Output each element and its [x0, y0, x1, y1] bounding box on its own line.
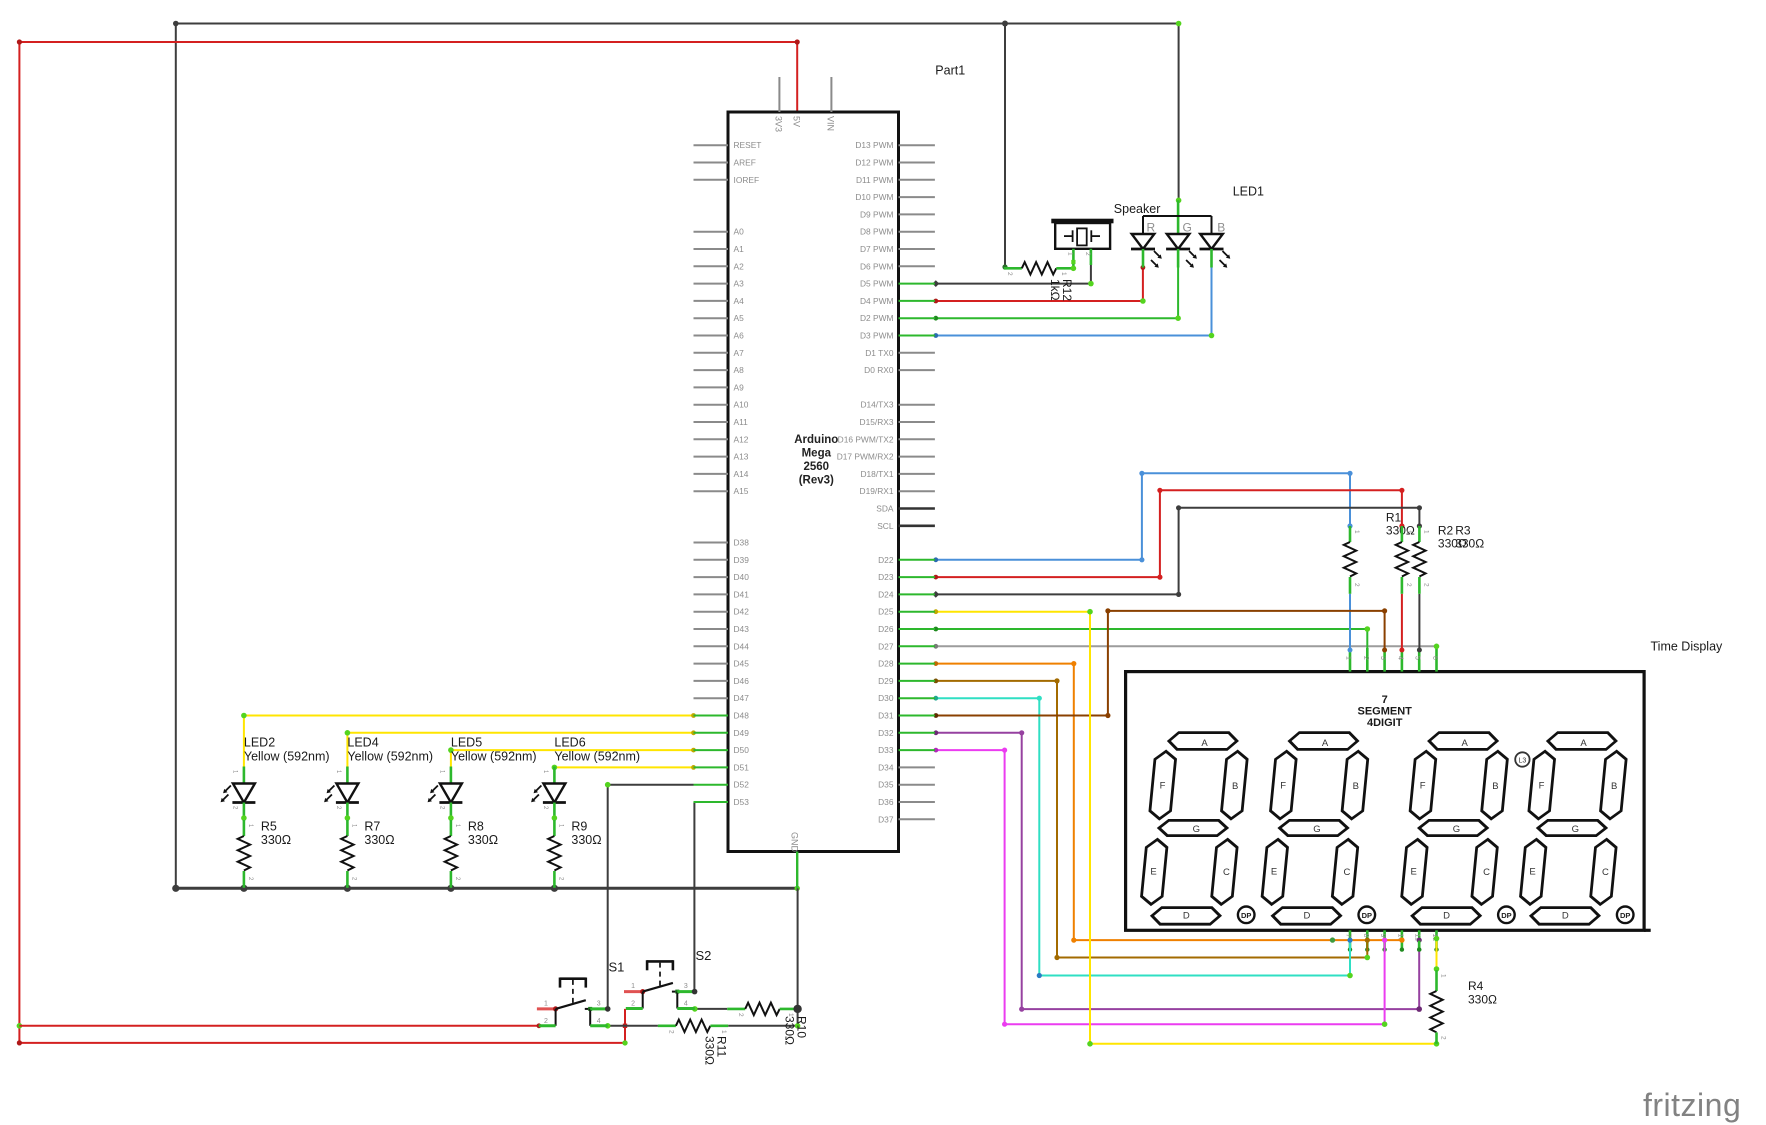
- svg-text:Mega: Mega: [802, 448, 832, 460]
- svg-text:6: 6: [1431, 656, 1438, 660]
- svg-text:D35: D35: [878, 780, 894, 790]
- svg-text:A13: A13: [734, 452, 749, 462]
- wire D51 to LED anode (yellow): [552, 765, 696, 771]
- svg-text:SCL: SCL: [877, 521, 894, 531]
- svg-text:D22: D22: [878, 555, 894, 565]
- svg-text:G: G: [1183, 221, 1192, 235]
- svg-text:D48: D48: [734, 711, 750, 721]
- svg-text:2: 2: [668, 1030, 675, 1034]
- LED LED1-R (red channel): [1131, 221, 1162, 268]
- svg-text:4DIGIT: 4DIGIT: [1367, 717, 1403, 729]
- svg-text:Yellow (592nm): Yellow (592nm): [451, 750, 537, 764]
- wire D50 to LED anode (yellow): [448, 747, 696, 767]
- svg-text:1: 1: [1405, 530, 1412, 534]
- svg-text:D24: D24: [878, 589, 894, 599]
- svg-text:1: 1: [720, 1030, 727, 1034]
- svg-text:GND: GND: [789, 832, 799, 853]
- svg-text:L3: L3: [1519, 757, 1527, 764]
- wire D53 to switch S2 pin 3: [693, 802, 696, 992]
- wire D33 to display pin 9 (magenta): [934, 748, 1388, 1028]
- Arduino pins D38-D53: [694, 538, 750, 808]
- svg-text:LED2: LED2: [244, 736, 275, 750]
- svg-text:D33: D33: [878, 745, 894, 755]
- svg-text:D29: D29: [878, 676, 894, 686]
- svg-text:A2: A2: [734, 261, 745, 271]
- svg-text:R9: R9: [571, 820, 587, 834]
- svg-text:330Ω: 330Ω: [261, 833, 291, 847]
- LED LED4 Yellow 592nm: [324, 736, 433, 821]
- svg-text:R: R: [1147, 221, 1156, 235]
- wire D28 to display pin 10 (orange): [933, 661, 1404, 943]
- svg-text:D10 PWM: D10 PWM: [855, 192, 893, 202]
- 7-seg digit 3: [1399, 733, 1510, 925]
- wire S2 pin 4 to R10: [692, 1006, 727, 1012]
- svg-text:D32: D32: [878, 728, 894, 738]
- svg-text:D11 PWM: D11 PWM: [856, 175, 894, 185]
- svg-text:1: 1: [1066, 252, 1073, 256]
- LED LED1-G (green channel): [1166, 221, 1197, 268]
- svg-text:D18/TX1: D18/TX1: [860, 469, 893, 479]
- svg-text:7: 7: [1382, 694, 1388, 706]
- svg-text:D2 PWM: D2 PWM: [860, 313, 894, 323]
- svg-text:D41: D41: [734, 589, 750, 599]
- 7-seg digit 4: [1518, 733, 1629, 925]
- svg-text:D46: D46: [734, 676, 750, 686]
- wire ground bus (horizontal): [176, 887, 797, 890]
- decimal point DP4: [1617, 907, 1634, 924]
- svg-text:Part1: Part1: [935, 64, 965, 78]
- svg-text:LED4: LED4: [347, 736, 378, 750]
- wire D31 to display pin 3 (dark brown): [934, 608, 1388, 718]
- svg-text:AREF: AREF: [734, 158, 756, 168]
- Arduino pins D13-D0: [855, 140, 935, 375]
- svg-text:D50: D50: [734, 745, 750, 755]
- svg-text:Yellow (592nm): Yellow (592nm): [554, 750, 640, 764]
- svg-text:A3: A3: [734, 279, 745, 289]
- label Part1: [935, 64, 965, 78]
- resistor R1 330: [1344, 511, 1415, 594]
- node ground junction dot at R10 pin1: [793, 1005, 801, 1013]
- svg-text:1: 1: [787, 1013, 794, 1017]
- svg-text:330Ω: 330Ω: [364, 833, 394, 847]
- speaker Part1: [1051, 219, 1113, 269]
- svg-text:D23: D23: [878, 572, 894, 582]
- node L3 colon indicator: [1515, 752, 1529, 766]
- svg-text:D8 PWM: D8 PWM: [860, 227, 894, 237]
- svg-text:RESET: RESET: [734, 140, 762, 150]
- svg-text:A6: A6: [734, 331, 745, 341]
- wire D2 to LED1 green cathode: [933, 267, 1180, 322]
- svg-text:A15: A15: [734, 486, 749, 496]
- svg-text:A8: A8: [734, 365, 745, 375]
- svg-text:1: 1: [1345, 656, 1352, 660]
- svg-text:330Ω: 330Ω: [571, 833, 601, 847]
- svg-text:D19/RX1: D19/RX1: [860, 486, 894, 496]
- resistor R5 330: [238, 820, 291, 888]
- svg-text:D38: D38: [734, 538, 750, 548]
- wire D27 to display pin 6 (gray): [933, 644, 1439, 650]
- svg-text:S2: S2: [696, 948, 712, 963]
- wire ground bus down to R10/R11 node: [797, 888, 799, 1009]
- svg-text:Speaker: Speaker: [1114, 202, 1161, 216]
- svg-text:2560: 2560: [804, 461, 830, 473]
- Arduino ground pin GND: [789, 832, 799, 888]
- transistor/switch S1 pushbutton: [537, 960, 625, 1026]
- Arduino pins D14-D19 serial: [837, 400, 935, 497]
- svg-text:9: 9: [1379, 934, 1386, 938]
- wire LED1 common feed (vertical): [1176, 21, 1182, 203]
- wire R3 to display pin 5 (black): [1417, 594, 1422, 653]
- svg-text:Yellow (592nm): Yellow (592nm): [347, 750, 433, 764]
- svg-text:8: 8: [1362, 934, 1369, 938]
- svg-text:D14/TX3: D14/TX3: [860, 400, 893, 410]
- svg-text:VIN: VIN: [826, 116, 836, 131]
- node ground bus junctions at R5 R7 R8 R9: [172, 885, 800, 892]
- svg-text:2: 2: [1422, 583, 1429, 587]
- svg-text:1: 1: [1060, 272, 1067, 276]
- svg-text:2: 2: [1084, 252, 1091, 256]
- svg-text:Time Display: Time Display: [1651, 640, 1724, 654]
- wire D32 to display pin 11 (purple): [934, 730, 1422, 1012]
- svg-text:4: 4: [1396, 656, 1403, 660]
- resistor R8 330: [445, 820, 498, 888]
- wire branch to R12 pin 2 (node junction at top): [1002, 21, 1008, 270]
- svg-text:D7 PWM: D7 PWM: [860, 244, 894, 254]
- svg-text:D31: D31: [878, 711, 894, 721]
- svg-text:R8: R8: [468, 820, 484, 834]
- LED LED6 Yellow 592nm: [531, 736, 640, 821]
- svg-text:2: 2: [1362, 656, 1369, 660]
- resistor R2 330: [1396, 524, 1467, 594]
- wire GND net: left vertical rail down to ground bus: [175, 24, 177, 889]
- wire D30 to display pin 7 (turquoise): [933, 696, 1352, 979]
- op-amp/IC U1: Arduino Mega 2560 body: [728, 112, 899, 852]
- svg-text:7: 7: [1345, 934, 1352, 938]
- wire D25 to R4 (yellow): [933, 609, 1439, 1047]
- resistor R4 330: [1430, 970, 1497, 1044]
- Arduino top pins 3V3 5V VIN: [774, 77, 836, 132]
- svg-text:D42: D42: [734, 607, 750, 617]
- wire display pin 12 to R4 (yellow): [1434, 936, 1440, 972]
- svg-text:R2: R2: [1438, 524, 1454, 538]
- svg-text:D34: D34: [878, 762, 894, 772]
- svg-text:Yellow (592nm): Yellow (592nm): [244, 750, 330, 764]
- label Time Display: [1651, 640, 1724, 654]
- svg-text:D16 PWM/TX2: D16 PWM/TX2: [838, 434, 894, 444]
- svg-text:D6 PWM: D6 PWM: [860, 261, 894, 271]
- svg-text:D47: D47: [734, 693, 750, 703]
- display bottom pins 7-12: [1345, 930, 1439, 952]
- resistor R7 330: [341, 820, 394, 888]
- Arduino pins SDA SCL: [876, 504, 935, 531]
- display top pins 1-6: [1345, 648, 1439, 672]
- svg-text:D5 PWM: D5 PWM: [860, 279, 894, 289]
- svg-text:Arduino: Arduino: [794, 434, 838, 446]
- wire 5V to switch S2 pin 2: [17, 1009, 628, 1046]
- wire D49 to LED anode (yellow): [345, 730, 696, 768]
- svg-text:D37: D37: [878, 814, 894, 824]
- svg-text:D43: D43: [734, 624, 750, 634]
- svg-text:3V3: 3V3: [774, 116, 784, 132]
- wire R1 to display pin 1 (blue): [1348, 594, 1353, 653]
- LED LED5 Yellow 592nm: [428, 736, 537, 821]
- svg-text:2: 2: [1006, 272, 1013, 276]
- 7-seg digit 1: [1139, 733, 1250, 925]
- wire D24 to R3 (black): [932, 505, 1422, 598]
- svg-text:330Ω: 330Ω: [1455, 537, 1484, 551]
- node S1 pin3 junction with D52 wire: [605, 1006, 611, 1012]
- svg-text:A14: A14: [734, 469, 749, 479]
- op-amp/IC U2: 7 segment 4 digit time display body: [1126, 672, 1651, 931]
- svg-text:R4: R4: [1468, 979, 1484, 993]
- svg-text:2: 2: [1353, 583, 1360, 587]
- svg-text:LED5: LED5: [451, 736, 482, 750]
- LED1 RGB common bus: [1143, 200, 1212, 234]
- svg-text:D53: D53: [734, 797, 750, 807]
- svg-text:1: 1: [1440, 974, 1447, 978]
- svg-text:A7: A7: [734, 348, 745, 358]
- svg-text:D4 PWM: D4 PWM: [860, 296, 894, 306]
- label Speaker: [1114, 202, 1161, 216]
- svg-text:B: B: [1217, 221, 1225, 235]
- svg-text:1kΩ: 1kΩ: [1048, 279, 1062, 301]
- svg-text:D13 PWM: D13 PWM: [855, 140, 893, 150]
- svg-text:A11: A11: [734, 417, 749, 427]
- resistor R10 330: [727, 1003, 808, 1045]
- svg-text:A1: A1: [734, 244, 745, 254]
- svg-text:D45: D45: [734, 659, 750, 669]
- svg-text:D17 PWM/RX2: D17 PWM/RX2: [837, 452, 894, 462]
- wire D3 to LED1 blue cathode: [933, 267, 1214, 339]
- wire D48 to LED anode (yellow): [241, 713, 696, 768]
- svg-text:SEGMENT: SEGMENT: [1357, 706, 1412, 718]
- wire 5V to switch S1 pin 2: [19, 1023, 541, 1028]
- svg-text:2: 2: [737, 1013, 744, 1017]
- svg-text:LED6: LED6: [554, 736, 585, 750]
- resistor R12 1k: [1004, 262, 1076, 301]
- svg-text:2: 2: [1440, 1036, 1447, 1040]
- svg-text:D15/RX3: D15/RX3: [860, 417, 894, 427]
- svg-text:D26: D26: [878, 624, 894, 634]
- wire GND net: top horizontal from left rail to LED1 common: [173, 21, 1179, 27]
- svg-text:IOREF: IOREF: [734, 175, 760, 185]
- svg-text:LED1: LED1: [1233, 185, 1264, 199]
- wire R11 to ground node: [728, 1009, 800, 1029]
- svg-text:330Ω: 330Ω: [703, 1036, 717, 1065]
- svg-text:A9: A9: [734, 382, 745, 392]
- 7-seg digit 2: [1259, 733, 1370, 925]
- svg-text:D40: D40: [734, 572, 750, 582]
- wire 5V net: left red vertical rail: [17, 39, 22, 1043]
- display pin 11 stub over wire: [1417, 941, 1421, 952]
- svg-text:D27: D27: [878, 641, 894, 651]
- svg-text:1: 1: [1422, 530, 1429, 534]
- svg-text:330Ω: 330Ω: [1468, 993, 1497, 1007]
- wire D23 to R2 (red): [933, 488, 1404, 580]
- svg-text:A0: A0: [734, 227, 745, 237]
- label LED1: [1233, 185, 1264, 199]
- wire D4 to LED1 red cathode: [933, 265, 1145, 304]
- label fritzing watermark: [1643, 1087, 1741, 1123]
- decimal point DP3: [1498, 907, 1515, 924]
- Arduino pins D22-D37: [878, 555, 935, 825]
- svg-text:R1: R1: [1386, 511, 1402, 525]
- svg-text:A4: A4: [734, 296, 745, 306]
- resistor R9 330: [548, 820, 601, 888]
- wire D22 to R1 (blue): [933, 471, 1352, 563]
- decimal point DP2: [1359, 907, 1376, 924]
- wire D29 to display pin 8 (brown): [933, 678, 1370, 960]
- svg-text:S1: S1: [609, 960, 625, 975]
- resistor R3 330: [1413, 524, 1484, 594]
- svg-text:R7: R7: [364, 820, 380, 834]
- wire D26 to display pin 2 (green): [933, 626, 1370, 652]
- svg-text:A5: A5: [734, 313, 745, 323]
- svg-text:A10: A10: [734, 400, 749, 410]
- wire S1 pin 4 to R11: [605, 1023, 658, 1029]
- svg-text:D51: D51: [734, 762, 750, 772]
- decimal point DP1: [1238, 907, 1255, 924]
- resistor R11 330: [658, 1020, 729, 1065]
- wire D5 to speaker pin 2: [932, 265, 1093, 287]
- wire R2 to display pin 4 (red): [1399, 594, 1404, 653]
- svg-text:2: 2: [1405, 583, 1412, 587]
- svg-text:D1 TX0: D1 TX0: [865, 348, 894, 358]
- LED LED2 Yellow 592nm: [221, 736, 330, 821]
- Arduino left pins RESET/AREF/IOREF: [694, 140, 762, 185]
- svg-text:1: 1: [1353, 530, 1360, 534]
- LED LED1-B (blue channel): [1200, 221, 1231, 268]
- svg-text:D44: D44: [734, 641, 750, 651]
- transistor/switch S2 pushbutton: [624, 948, 711, 1008]
- svg-text:D28: D28: [878, 659, 894, 669]
- svg-text:5V: 5V: [791, 116, 801, 127]
- wire D52 to switch S1 pin 3: [605, 782, 694, 1009]
- svg-text:(Rev3): (Rev3): [799, 475, 834, 487]
- svg-text:R3: R3: [1455, 524, 1471, 538]
- svg-text:SDA: SDA: [876, 504, 894, 514]
- svg-text:D9 PWM: D9 PWM: [860, 209, 894, 219]
- svg-text:330Ω: 330Ω: [783, 1016, 797, 1045]
- svg-text:A12: A12: [734, 434, 749, 444]
- svg-text:5: 5: [1414, 656, 1421, 660]
- svg-text:fritzing: fritzing: [1643, 1087, 1741, 1123]
- svg-text:D25: D25: [878, 607, 894, 617]
- node 5V junction to S1: [17, 1023, 23, 1029]
- svg-text:330Ω: 330Ω: [468, 833, 498, 847]
- svg-text:D30: D30: [878, 693, 894, 703]
- wire 5V net: top red horizontal to Arduino 5V pin: [19, 39, 799, 112]
- svg-text:D3 PWM: D3 PWM: [860, 331, 894, 341]
- svg-text:D39: D39: [734, 555, 750, 565]
- svg-text:R5: R5: [261, 820, 277, 834]
- Arduino pins A0-A15: [694, 227, 749, 497]
- svg-text:3: 3: [1379, 656, 1386, 660]
- svg-text:D12 PWM: D12 PWM: [855, 158, 893, 168]
- svg-text:D52: D52: [734, 780, 750, 790]
- svg-text:D36: D36: [878, 797, 894, 807]
- node S2 pin3 junction with D53 wire: [692, 989, 698, 995]
- svg-text:D0 RX0: D0 RX0: [864, 365, 894, 375]
- svg-text:D49: D49: [734, 728, 750, 738]
